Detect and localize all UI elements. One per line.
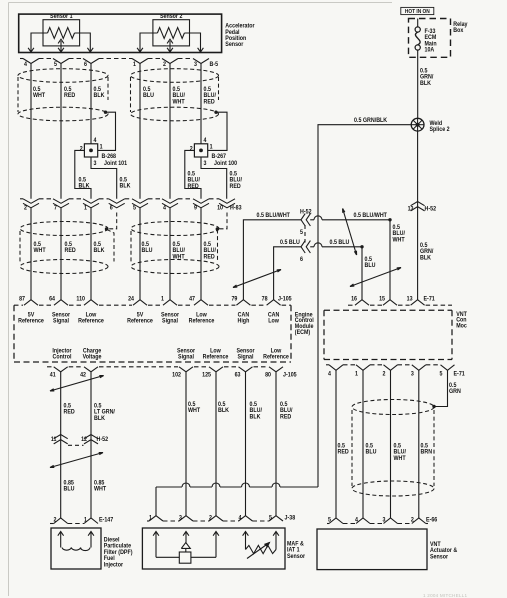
relay box (dashed) [409, 19, 451, 58]
svg-text:J-38: J-38 [285, 515, 296, 522]
svg-text:Joint 101: Joint 101 [104, 160, 128, 167]
svg-text:H-83: H-83 [230, 205, 242, 212]
svg-text:BLU: BLU [142, 248, 153, 255]
svg-text:BRN: BRN [421, 449, 433, 456]
connector E-71 row1 line / VNT top [348, 304, 354, 306]
svg-text:10: 10 [217, 205, 224, 212]
HOT IN ON box [401, 7, 434, 14]
svg-text:42: 42 [80, 372, 87, 379]
svg-text:Sensor: Sensor [430, 554, 449, 561]
wiper arrow sensor 2 [167, 39, 173, 43]
twisted pair symbol injector upper [50, 376, 104, 392]
svg-text:0.5 BLU: 0.5 BLU [280, 240, 300, 247]
wire segment H-83 to J-105 at x=91 [90, 208, 92, 300]
wire CAN Low down to E-71 pin 16 [361, 247, 363, 300]
wire 0.5 BLU sensor2 pin1 [139, 64, 141, 199]
svg-text:41: 41 [50, 372, 57, 379]
svg-text:High: High [237, 318, 249, 325]
svg-text:BLU: BLU [365, 263, 376, 270]
svg-text:BLU: BLU [366, 449, 377, 456]
svg-text:RED: RED [204, 254, 216, 261]
svg-text:87: 87 [19, 296, 26, 303]
svg-text:BLK: BLK [420, 81, 432, 88]
svg-text:BLK: BLK [250, 414, 262, 421]
wire 0.5 WHT sensor1 pin4 [30, 64, 32, 199]
inline connector H-52 pin 13 [411, 202, 425, 206]
svg-text:1 2004 MITCHELL1: 1 2004 MITCHELL1 [423, 593, 467, 598]
svg-text:(ECM): (ECM) [295, 329, 310, 336]
svg-text:Reference: Reference [18, 318, 44, 325]
svg-text:78: 78 [262, 296, 269, 303]
DPF fuel injector box [51, 528, 101, 569]
sensor 1 right lead wire [75, 33, 91, 52]
wiper arrow sensor 1 [58, 39, 64, 43]
svg-text:B-5: B-5 [210, 62, 219, 69]
svg-text:WHT: WHT [33, 93, 45, 100]
svg-text:Moc: Moc [456, 323, 467, 330]
svg-text:WHT: WHT [188, 408, 200, 415]
sensor 1 box [43, 20, 80, 46]
svg-text:80: 80 [265, 372, 272, 379]
svg-text:E-147: E-147 [99, 517, 114, 524]
svg-text:BLK: BLK [120, 183, 132, 190]
wire 0.5 BLU/WHT CAN High from ECM pin 79 [243, 220, 301, 300]
svg-text:J-105: J-105 [278, 296, 292, 303]
svg-text:B-268: B-268 [102, 154, 117, 161]
wire 0.5 GRN/BLK splice to MAF (long branch) [318, 125, 411, 487]
svg-text:RED: RED [204, 99, 216, 106]
svg-text:79: 79 [231, 296, 238, 303]
IAT thermistor zigzag [246, 545, 277, 553]
svg-text:Reference: Reference [127, 318, 153, 325]
connector E-71 row1 glyphs [355, 300, 369, 306]
svg-text:64: 64 [49, 296, 56, 303]
svg-text:Reference: Reference [263, 354, 289, 361]
IAT thermistor wires [245, 532, 247, 550]
svg-text:H-52: H-52 [300, 209, 312, 216]
wire 0.5 GRN/BLK branch to J-38 pin 1 with hops [156, 486, 182, 488]
shield cylinder 4 [131, 222, 219, 236]
weld splice 2 symbol [411, 118, 424, 131]
svg-text:H-52: H-52 [97, 437, 109, 444]
svg-text:RED: RED [280, 414, 292, 421]
svg-text:13: 13 [408, 206, 415, 213]
svg-text:WHT: WHT [94, 486, 106, 493]
shield cylinder 2 (sensor 2 wires) [131, 69, 219, 83]
svg-text:RED: RED [188, 184, 200, 191]
svg-text:E-71: E-71 [454, 371, 466, 378]
svg-text:RED: RED [230, 184, 242, 191]
svg-text:RED: RED [338, 449, 350, 456]
wire 0.5 BLU E-71 pin1 to E-66 pin4 [362, 370, 364, 518]
connector J-105 row line / ECM top edge [14, 304, 23, 306]
ECM box dashed edges [13, 305, 15, 362]
connector E-66 row [327, 523, 329, 525]
svg-text:WHT: WHT [393, 237, 405, 244]
svg-text:15: 15 [379, 296, 386, 303]
svg-text:Signal: Signal [178, 354, 194, 361]
inline connector H-52 pins 11 12 [54, 435, 68, 439]
sensor 2 left lead wire [140, 33, 157, 52]
VNT shield cylinder [352, 400, 434, 415]
DPF injector coil [62, 548, 90, 551]
svg-text:Joint 100: Joint 100 [214, 160, 238, 167]
svg-text:WHT: WHT [173, 254, 185, 261]
twisted pair symbol CAN at VNT [350, 268, 401, 287]
svg-text:J-105: J-105 [283, 372, 297, 379]
wire ECM to J-38 at x=216 [215, 372, 217, 516]
wire 0.5 RED E-71 pin4 to E-66 pin5 [335, 370, 337, 518]
wire segment H-83 to J-105 at x=201 [200, 208, 202, 300]
svg-text:E-71: E-71 [424, 296, 436, 303]
connector J-38 row [147, 520, 149, 522]
svg-text:Sensor: Sensor [287, 554, 306, 561]
svg-text:WHT: WHT [34, 248, 46, 255]
joint B-267 pin2 wire to connector [185, 150, 201, 198]
wire 0.5 GRN/BLK splice to H-52 pin 13 and E-71 pin 13 [417, 131, 419, 300]
wire segment H-83 to J-105 at x=31 [30, 208, 32, 300]
wire 0.5 RED ECM pin41 to E-147 pin2 [60, 372, 62, 518]
wire 0.5 RED sensor1 pin5 [60, 64, 62, 199]
joint B-267 square [194, 144, 207, 157]
sensor 2 right lead wire [184, 33, 200, 52]
wire 0.5 LT GRN/BLK ECM pin42 to E-147 pin1 [90, 372, 92, 518]
svg-text:BLU: BLU [64, 486, 75, 493]
MAF and IAT sensor box [142, 528, 285, 569]
svg-text:Signal: Signal [53, 318, 69, 325]
svg-text:H-52: H-52 [425, 206, 437, 213]
svg-text:WHT: WHT [394, 456, 406, 463]
connector E-147 row [50, 523, 54, 525]
wire CAN High down to E-71 pin 15 [389, 220, 391, 300]
svg-text:0.5 BLU/WHT: 0.5 BLU/WHT [354, 213, 388, 220]
connector H-83 row line [20, 198, 23, 200]
svg-text:BLK: BLK [94, 416, 106, 423]
wire 0.5 GRN E-71 pin5 to shield [434, 370, 448, 406]
svg-text:Reference: Reference [189, 318, 215, 325]
svg-text:BLU: BLU [143, 93, 154, 100]
inline connector H-52 pins 5 and 6 [301, 214, 305, 226]
wire segment H-83 to J-105 at x=140 [139, 208, 141, 300]
wire 0.5 BLU CAN Low from ECM pin 78 [274, 247, 301, 300]
svg-text:BLK: BLK [218, 408, 230, 415]
MAF triangle element [181, 543, 190, 549]
MAF element wires [155, 532, 157, 558]
svg-text:BLK: BLK [94, 93, 106, 100]
svg-text:B-267: B-267 [212, 154, 227, 161]
potentiometer resistor sensor 1 [48, 28, 75, 39]
svg-text:HOT IN ON: HOT IN ON [405, 9, 430, 16]
connector J-105 row2 line [47, 366, 53, 368]
sensor 2 terminal arrows [137, 48, 143, 52]
wire segment H-83 to J-105 at x=170 [169, 208, 171, 300]
svg-text:Injector: Injector [104, 562, 124, 569]
svg-text:RED: RED [65, 248, 77, 255]
wire 0.5 BLU/WHT sensor2 pin2 [169, 64, 171, 199]
svg-text:47: 47 [189, 296, 196, 303]
DPF injector internal arrows [58, 532, 64, 536]
MAF square element [179, 552, 191, 563]
wire 0.5 BLU/WHT E-71 pin2 to E-66 pin3 [390, 370, 392, 518]
shield cylinder 1 (sensor 1 wires) [18, 69, 108, 83]
shield 4 drain from H-83 pin 10 (dashed) [219, 213, 228, 229]
wire 0.5 BLU/RED sensor2 pin3 to joint B-267 pin4 [200, 64, 202, 144]
sensor 1 left lead wire [31, 33, 48, 52]
svg-text:24: 24 [128, 296, 135, 303]
svg-text:BLK: BLK [420, 255, 432, 262]
svg-text:Sensor: Sensor [225, 42, 244, 49]
svg-text:Control: Control [53, 354, 72, 361]
connector E-71 row2 glyphs [329, 365, 343, 371]
wire 0.5 BLK sensor1 pin6 to joint B-268 pin4 [90, 64, 92, 144]
wire ECM to J-38 at x=186 [185, 372, 187, 516]
twisted pair symbol injector lower [50, 453, 103, 468]
svg-text:16: 16 [351, 296, 358, 303]
sensor 1 terminal arrows [28, 48, 34, 52]
svg-text:Signal: Signal [162, 318, 178, 325]
svg-text:110: 110 [76, 296, 85, 303]
scan edge artifact lines [8, 3, 10, 597]
joint B-268 pin3 wire to connector [91, 157, 117, 199]
MAF internal arrows [153, 532, 159, 536]
wire 0.5 GRN/BLK fuse to weld splice [417, 50, 419, 119]
svg-text:10A: 10A [425, 47, 435, 54]
potentiometer resistor sensor 2 [157, 28, 184, 39]
wire segment H-83 to J-105 at x=61 [60, 208, 62, 300]
joint B-267 pin3 wire to connector [201, 157, 227, 199]
shield 1 drain to joint B-268 [104, 111, 107, 114]
IAT thermistor arrow [247, 543, 270, 559]
svg-text:13: 13 [407, 296, 414, 303]
svg-text:0.5 BLU/WHT: 0.5 BLU/WHT [257, 213, 291, 220]
svg-text:RED: RED [64, 93, 76, 100]
svg-text:Voltage: Voltage [83, 354, 102, 361]
svg-text:WHT: WHT [173, 99, 185, 106]
joint B-268 square [84, 144, 97, 157]
svg-text:Sensor 1: Sensor 1 [50, 13, 73, 20]
wire ECM to J-38 at x=245.5 [245, 372, 247, 516]
hop over GRN/BLK vertical (CAN Low) [314, 243, 322, 247]
svg-text:BLK: BLK [79, 183, 91, 190]
joint B-268 pin2 wire to connector [75, 150, 91, 198]
svg-text:RED: RED [64, 409, 76, 416]
svg-text:Signal: Signal [238, 354, 254, 361]
connector J-105 row glyphs [24, 300, 38, 306]
svg-text:Reference: Reference [78, 318, 104, 325]
svg-text:0.5 GRN/BLK: 0.5 GRN/BLK [354, 117, 388, 124]
svg-text:Sensor 2: Sensor 2 [160, 13, 183, 20]
svg-text:63: 63 [235, 372, 242, 379]
svg-text:Box: Box [453, 28, 464, 35]
svg-text:BLK: BLK [94, 248, 106, 255]
wire 0.5 BRN E-71 pin3 to E-66 pin2 [418, 370, 420, 518]
hop over GRN/BLK vertical (CAN High) [314, 216, 322, 220]
connector B-5 row line [20, 58, 23, 60]
svg-text:E-66: E-66 [426, 517, 438, 524]
fuse F-33 ECM Main 10A [417, 19, 419, 28]
shield 3 drain from H-83 pin 6 (dashed) [108, 213, 117, 229]
svg-text:125: 125 [202, 372, 212, 379]
sensor 2 box [153, 20, 190, 46]
svg-text:12: 12 [81, 437, 88, 444]
wire ECM to J-38 at x=276 [275, 372, 277, 516]
connector H-83 glyphs [23, 199, 39, 204]
twisted pair symbol CAN middle [343, 209, 357, 256]
shield 2 drain to joint B-267 [214, 111, 217, 114]
svg-text:11: 11 [51, 437, 57, 444]
svg-text:GRN: GRN [449, 389, 461, 396]
VNT control module box (dashed) [324, 309, 452, 311]
svg-text:Reference: Reference [203, 354, 229, 361]
connector B-5 glyphs [23, 59, 39, 64]
svg-text:0.5 BLU: 0.5 BLU [330, 240, 350, 247]
svg-text:Splice 2: Splice 2 [430, 127, 451, 134]
connector J-105 row2 glyphs [54, 367, 68, 372]
svg-text:102: 102 [172, 372, 182, 379]
connector E-71 row2 line [326, 364, 329, 366]
accelerator pedal position sensor box [19, 14, 222, 52]
shield cylinder 3 [20, 222, 108, 236]
twisted pair symbol CAN at ECM [233, 270, 281, 288]
VNT actuator and sensor box [317, 529, 427, 570]
svg-text:Low: Low [268, 318, 279, 325]
